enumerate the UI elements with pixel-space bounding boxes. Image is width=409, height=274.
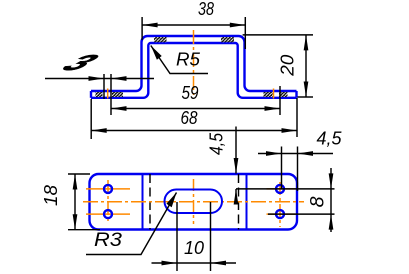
left foot end cap (90, 91, 92, 98)
slot (obround) (165, 190, 223, 214)
hidden bend line left (dashed) (149, 174, 151, 230)
thickness dimension 3 (45, 74, 154, 115)
centerline tick left foot (107, 89, 109, 99)
dimension 8 (236, 168, 335, 232)
dimension 4,5 horizontal (258, 147, 333, 192)
hole top-right (276, 185, 284, 193)
svg-text:R3: R3 (94, 230, 122, 251)
hatch top flange left (154, 37, 167, 42)
hatch left foot B (112, 92, 123, 97)
svg-text:18: 18 (41, 185, 61, 206)
dimension 20 (243, 35, 313, 97)
svg-text:R5: R5 (176, 50, 201, 70)
svg-text:59: 59 (182, 83, 199, 103)
left holes vertical centerline (107, 180, 109, 224)
radius leader R5 (151, 46, 208, 74)
right foot end cap (295, 91, 297, 98)
hatch right foot A (264, 92, 273, 97)
hole centerline h top-left (86, 188, 130, 190)
hole centerline h bottom-right (267, 213, 296, 215)
svg-text:20: 20 (278, 55, 298, 77)
dimension 10 (152, 202, 237, 271)
hatch right foot B (279, 92, 288, 97)
dimension 38 (142, 17, 245, 49)
slot vertical centerline (193, 179, 195, 224)
centerline tick right foot (273, 89, 275, 99)
bend tangent line right (246, 174, 248, 230)
hole bottom-right (276, 210, 284, 218)
svg-text:68: 68 (181, 108, 198, 128)
dimension 18 (68, 174, 100, 230)
hole centerline h top-right (267, 188, 296, 190)
bend tangent line left (142, 174, 144, 230)
right holes vertical centerline (279, 182, 281, 227)
front view outer profile (91, 36, 297, 91)
hatch left foot A (96, 92, 103, 97)
front view inner profile (91, 43, 297, 98)
radius leader R3 (86, 193, 177, 255)
dimension 68 (91, 98, 297, 139)
hole top-left (104, 185, 112, 193)
svg-text:8: 8 (307, 196, 329, 207)
hidden bend line right (dashed) (238, 174, 240, 230)
svg-text:4,5: 4,5 (207, 132, 227, 155)
hole centerline h bottom-left (86, 213, 130, 215)
top view plate outline (90, 174, 298, 230)
svg-text:10: 10 (184, 238, 204, 258)
plate main centerline (83, 201, 304, 203)
dimension 4,5 vertical (235, 127, 237, 204)
centerline front view (193, 30, 195, 95)
hatch top flange right (221, 37, 234, 42)
hole bottom-left (104, 210, 112, 218)
svg-text:4,5: 4,5 (317, 129, 343, 149)
svg-text:38: 38 (198, 0, 214, 19)
dimension 59 (111, 86, 280, 115)
